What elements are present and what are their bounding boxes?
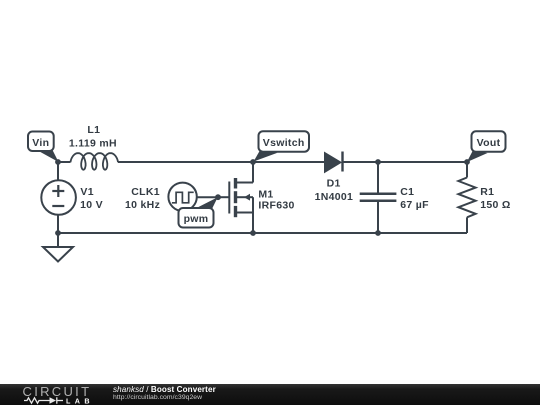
footer credit line (113, 385, 216, 394)
node Vin flag (28, 132, 59, 163)
node V1 bottom junction (55, 230, 61, 236)
footer bar (0, 384, 540, 405)
label D1 (315, 177, 354, 203)
voltage source V1 (41, 180, 76, 215)
svg-text:IRF630: IRF630 (258, 200, 294, 212)
wire top rail inductor to M1 drain (118, 161, 253, 163)
label V1 (80, 186, 103, 211)
svg-text:pwm: pwm (184, 213, 209, 225)
wire top rail left segment (58, 161, 71, 163)
svg-text:CLK1: CLK1 (131, 186, 160, 198)
wire bottom rail (58, 232, 467, 234)
node Vout junction (464, 159, 470, 165)
wire V1 top (57, 162, 59, 180)
node Vout flag (467, 131, 506, 162)
svg-text:150 Ω: 150 Ω (480, 199, 510, 211)
ground (43, 247, 73, 262)
wire V1 bottom (57, 215, 59, 233)
wire gate node to M1 gate (218, 196, 229, 198)
transistor M1 (229, 162, 253, 233)
label L1 (69, 124, 117, 149)
node Vin junction (55, 159, 61, 165)
node Vswitch flag (254, 131, 310, 161)
node M1 source junction (250, 230, 256, 236)
resistor R1 (466, 162, 468, 178)
svg-text:1.119 mH: 1.119 mH (69, 137, 117, 149)
wire top rail C1 to Vout node (378, 161, 467, 163)
node C1 top junction (375, 159, 381, 165)
svg-text:L1: L1 (87, 124, 100, 136)
wire top rail M1 to diode anode (253, 161, 325, 163)
node C1 bottom junction (375, 230, 381, 236)
svg-text:Vout: Vout (477, 137, 501, 149)
svg-text:10 V: 10 V (80, 199, 103, 211)
node gate junction (215, 194, 221, 200)
junction dots (55, 159, 470, 236)
svg-text:V1: V1 (80, 186, 93, 198)
inductor L1 (71, 153, 119, 170)
svg-text:10 kHz: 10 kHz (125, 199, 160, 211)
capacitor C1 (377, 162, 379, 194)
svg-text:Vswitch: Vswitch (263, 137, 305, 149)
footer url line (113, 394, 202, 401)
CircuitLab logo (0, 384, 100, 405)
svg-text:C1: C1 (400, 186, 414, 198)
label C1 (400, 186, 429, 211)
svg-text:67 µF: 67 µF (400, 199, 429, 211)
wire CLK1 to gate node (197, 196, 218, 198)
clock source CLK1 (168, 183, 196, 211)
svg-text:LAB: LAB (66, 397, 94, 405)
svg-text:D1: D1 (327, 177, 341, 189)
svg-text:Vin: Vin (32, 137, 49, 149)
node Vswitch junction (250, 159, 256, 165)
svg-text:1N4001: 1N4001 (315, 191, 354, 203)
wire ground stem (57, 233, 59, 247)
node pwm flag (179, 197, 218, 227)
wire top rail diode cathode to C1 (343, 161, 379, 163)
diode D1 (325, 153, 341, 172)
label R1 (480, 186, 510, 211)
label CLK1 (125, 186, 160, 211)
svg-text:R1: R1 (480, 186, 494, 198)
label M1 (258, 188, 294, 211)
